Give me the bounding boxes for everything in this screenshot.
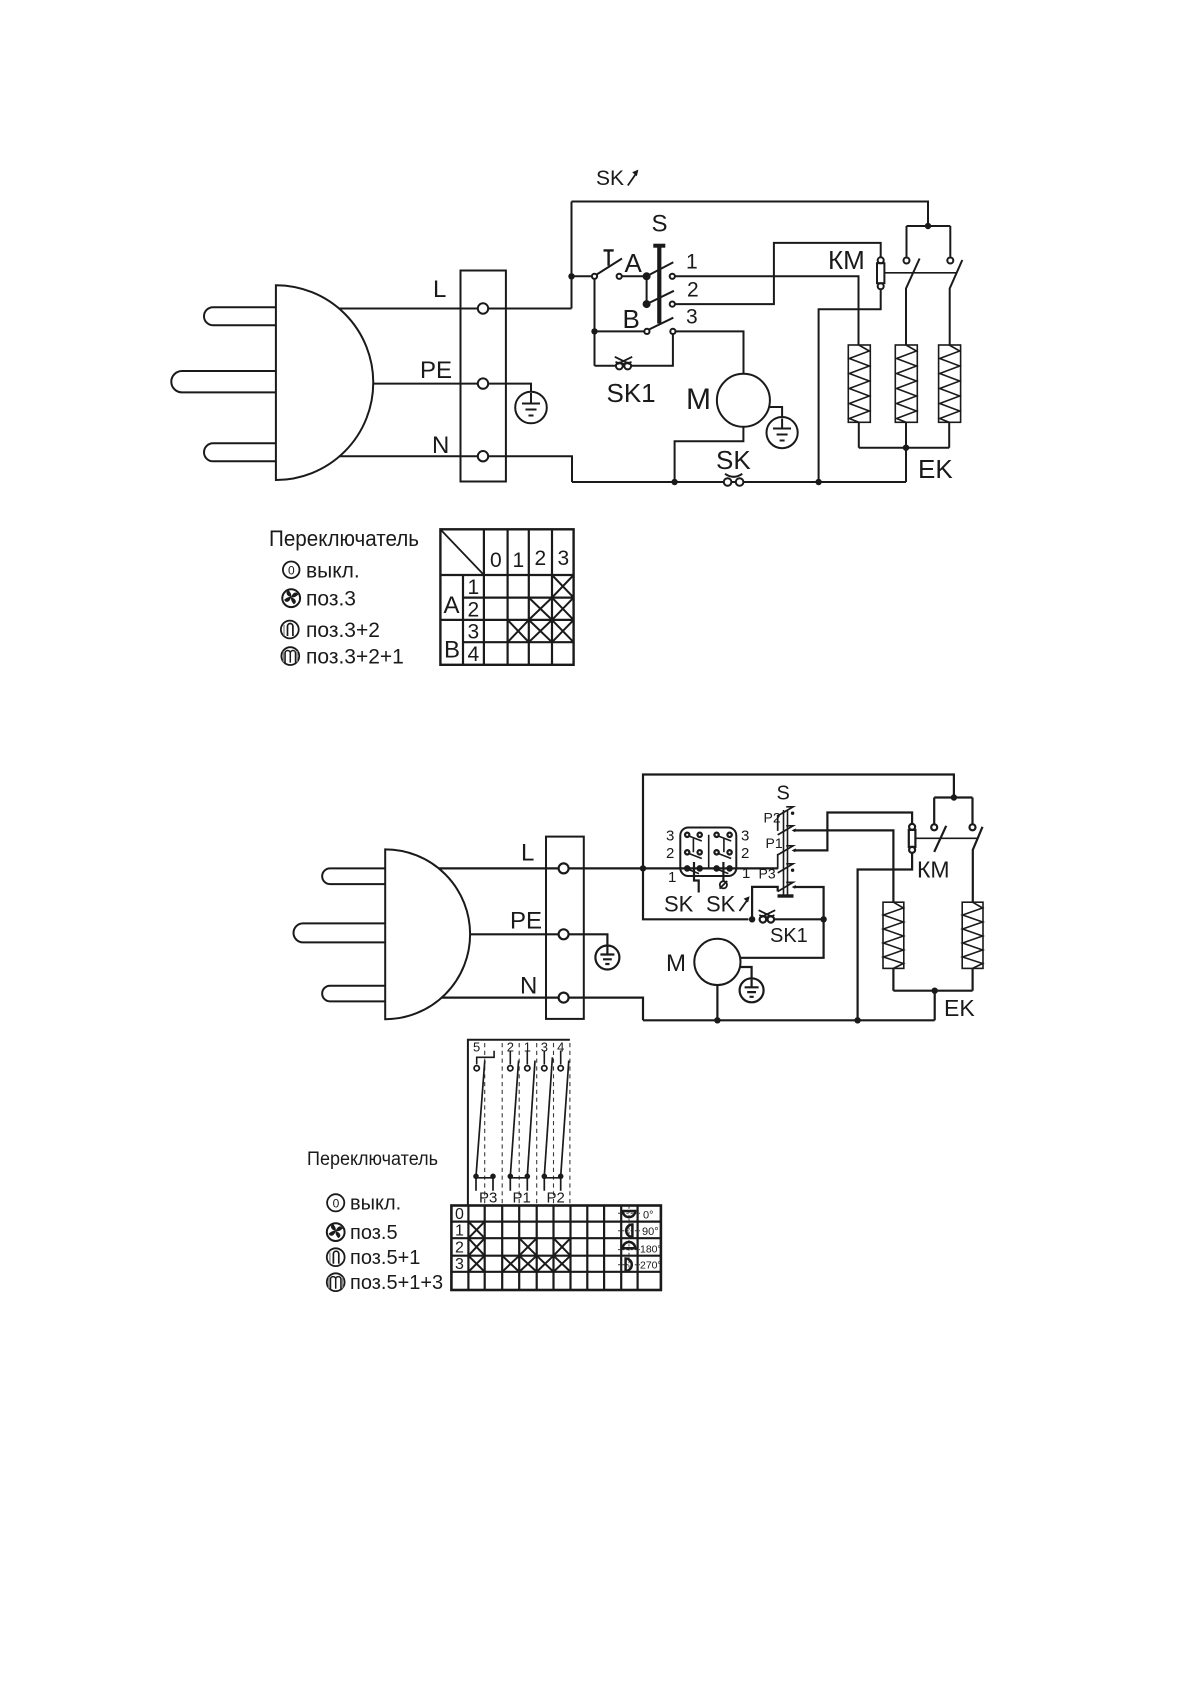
svg-text:2: 2 bbox=[666, 845, 674, 862]
table1 X r3c1 bbox=[508, 620, 529, 642]
svg-text:S: S bbox=[652, 211, 668, 238]
terminal block X2 bbox=[546, 837, 584, 1019]
selector S2 shaft bbox=[778, 810, 794, 896]
legend2 icon off bbox=[327, 1194, 344, 1211]
program staple P3 bbox=[473, 1174, 496, 1191]
KM contact K2 bbox=[947, 258, 962, 346]
svg-text:Переключатель: Переключатель bbox=[269, 526, 419, 551]
switch module SK box bbox=[680, 828, 736, 877]
wire motor ground tap bbox=[769, 407, 783, 417]
table2 X r3c3 bbox=[502, 1256, 519, 1272]
svg-text:M: M bbox=[666, 950, 686, 977]
svg-text:поз.3+2+1: поз.3+2+1 bbox=[306, 646, 404, 669]
svg-text:PE: PE bbox=[420, 357, 452, 384]
legend icon off bbox=[283, 562, 300, 579]
wire L riser bbox=[571, 202, 573, 309]
icon rot180 bbox=[618, 1242, 640, 1250]
node rail2 bbox=[932, 988, 938, 994]
table1 row labels bbox=[468, 576, 480, 666]
thermostat switch T actuator bbox=[604, 250, 614, 265]
svg-text:L: L bbox=[433, 276, 446, 303]
wire motor2 ground tap bbox=[740, 967, 752, 978]
motor M2 bbox=[694, 939, 740, 985]
svg-text:3: 3 bbox=[666, 828, 674, 845]
svg-text:поз.3: поз.3 bbox=[306, 588, 356, 611]
wire rail to N bus bbox=[905, 448, 907, 482]
S2 left rail rows3-4 bbox=[777, 854, 779, 869]
row3 contact of S bbox=[644, 318, 675, 334]
wire row2 to KM coil bbox=[675, 243, 881, 304]
table2 X r3c5 bbox=[537, 1256, 554, 1272]
label SK arrow top bbox=[596, 167, 638, 190]
legend icon fan bbox=[282, 589, 300, 607]
wire KM coil to N bus bbox=[819, 289, 881, 482]
program cam labels bbox=[473, 1040, 564, 1055]
table1 X r3c3 bbox=[552, 620, 574, 642]
program dashed guides bbox=[485, 1043, 570, 1206]
program cam5 contact bbox=[474, 1066, 479, 1071]
svg-text:B: B bbox=[623, 304, 640, 334]
wire L2 terminal to switch S2 bbox=[569, 867, 778, 869]
legend2 icon top-heat bbox=[327, 1248, 345, 1266]
program cam3 contact bbox=[542, 1066, 547, 1071]
wire row1 to heater1 bbox=[675, 276, 859, 345]
table2 X r2c4 bbox=[519, 1238, 537, 1256]
wire KM2 coil to N bbox=[858, 853, 913, 1020]
node P3 junction bbox=[820, 916, 826, 922]
S2 blade row1 bbox=[778, 807, 795, 816]
svg-text:2: 2 bbox=[535, 547, 547, 570]
table2 X r3c6 bbox=[554, 1256, 571, 1272]
program cam2 contact bbox=[508, 1066, 513, 1071]
node L2 junction bbox=[640, 865, 646, 871]
program staple P1 bbox=[508, 1174, 531, 1191]
svg-text:выкл.: выкл. bbox=[306, 560, 360, 583]
program track d3 bbox=[527, 1061, 535, 1177]
svg-text:поз.5+1: поз.5+1 bbox=[350, 1247, 420, 1269]
program track d5 bbox=[561, 1061, 569, 1177]
plug XP2 bbox=[294, 849, 471, 1019]
table1 X r2c3 bbox=[552, 598, 574, 620]
heater EK2 element1 bbox=[883, 902, 904, 968]
N2 bus bbox=[643, 1019, 935, 1021]
table2 X r2c1 bbox=[468, 1238, 484, 1256]
svg-text:КМ: КМ bbox=[828, 245, 865, 275]
table2 row labels bbox=[455, 1206, 464, 1273]
table1 diagonal bbox=[441, 530, 484, 575]
wire L2 riser bottom to SK1 bbox=[643, 868, 749, 919]
wire motor to N bus bbox=[675, 427, 744, 482]
svg-text:1: 1 bbox=[468, 576, 480, 599]
svg-text:N: N bbox=[432, 432, 449, 459]
svg-text:0: 0 bbox=[333, 1197, 340, 1211]
KM contact K1 bbox=[904, 258, 920, 346]
wire bus arms to KM contacts bbox=[907, 226, 951, 257]
svg-text:90°: 90° bbox=[642, 1226, 659, 1238]
wire top bus bbox=[572, 202, 929, 227]
wire PE terminal to ground bbox=[488, 384, 531, 392]
node motor2-N bbox=[714, 1017, 720, 1023]
svg-text:1: 1 bbox=[455, 1223, 464, 1240]
svg-text:выкл.: выкл. bbox=[350, 1193, 401, 1215]
heater EK element1 bbox=[848, 345, 870, 422]
module actuator SKa stem bbox=[720, 862, 728, 889]
svg-text:3: 3 bbox=[686, 306, 698, 329]
node KM2-N bbox=[854, 1017, 860, 1023]
svg-text:EK: EK bbox=[944, 995, 975, 1021]
SK thermal switch bbox=[724, 474, 744, 486]
program track d2 bbox=[510, 1061, 518, 1177]
svg-text:0: 0 bbox=[288, 564, 295, 578]
wire P2 to heater1 bbox=[794, 830, 894, 902]
heater EK element2 bbox=[895, 345, 917, 422]
svg-text:1: 1 bbox=[513, 549, 525, 572]
wire B common to row3 bbox=[595, 330, 645, 332]
program cam1 stem bbox=[526, 1051, 528, 1065]
mechanical link KM bbox=[885, 272, 956, 274]
svg-text:PE: PE bbox=[510, 908, 542, 935]
module contacts row2 bbox=[685, 850, 732, 858]
svg-text:SK: SK bbox=[664, 892, 694, 917]
module contacts row1 bbox=[685, 866, 732, 873]
S2 blade row5 bbox=[778, 882, 796, 891]
wire A to row1 common bbox=[622, 275, 647, 277]
selector switch S bar bbox=[653, 246, 665, 324]
wire B common riser bbox=[594, 279, 596, 366]
svg-text:SK: SK bbox=[596, 167, 624, 190]
wire row1 common to row2 common bbox=[646, 276, 648, 304]
svg-text:2: 2 bbox=[741, 845, 749, 862]
heater EK element3 bbox=[939, 345, 961, 422]
module actuator SK stem bbox=[694, 862, 699, 893]
program frame solid edges bbox=[468, 1040, 570, 1206]
svg-text:B: B bbox=[444, 637, 460, 664]
motor M bbox=[717, 374, 770, 427]
svg-text:2: 2 bbox=[455, 1240, 464, 1257]
svg-text:SK: SK bbox=[716, 445, 751, 475]
wire PE2 to ground bbox=[569, 934, 608, 946]
svg-text:N: N bbox=[520, 973, 537, 1000]
svg-text:2: 2 bbox=[687, 279, 699, 302]
ground symbol motor2 bbox=[740, 978, 764, 1002]
S2 left rail rows1-2 bbox=[777, 815, 779, 831]
svg-text:A: A bbox=[625, 248, 643, 278]
wire N2 plug to terminal bbox=[442, 996, 559, 998]
node B common bbox=[591, 328, 597, 334]
svg-text:поз.3+2: поз.3+2 bbox=[306, 619, 380, 642]
table2 verticals bbox=[468, 1206, 637, 1291]
wire L2 riser top bbox=[643, 775, 954, 869]
svg-text:A: A bbox=[444, 592, 460, 619]
svg-text:3: 3 bbox=[558, 547, 570, 570]
svg-text:1: 1 bbox=[686, 251, 698, 274]
S2 blade row2 bbox=[778, 826, 796, 835]
svg-text:SK: SK bbox=[706, 892, 736, 917]
icon rot90 bbox=[618, 1225, 640, 1237]
SK1-2 thermal cutout bbox=[759, 910, 824, 922]
wire junction to thermostat bbox=[572, 275, 593, 277]
program staple P2 bbox=[542, 1174, 564, 1191]
svg-text:S: S bbox=[777, 783, 790, 805]
program cam4 contact bbox=[558, 1066, 563, 1071]
svg-text:270°: 270° bbox=[640, 1260, 662, 1272]
wire N step bbox=[488, 456, 572, 482]
svg-text:P3: P3 bbox=[759, 866, 776, 882]
terminal block X1 bbox=[461, 271, 506, 482]
svg-text:поз.5+1+3: поз.5+1+3 bbox=[350, 1272, 443, 1294]
svg-text:L: L bbox=[521, 840, 534, 867]
table2 X r3c1 bbox=[468, 1256, 484, 1272]
svg-text:3: 3 bbox=[741, 828, 749, 845]
contactor coil KM2 bbox=[909, 824, 916, 853]
svg-text:2: 2 bbox=[468, 599, 480, 622]
svg-text:P2: P2 bbox=[547, 1190, 565, 1207]
svg-text:P3: P3 bbox=[479, 1190, 497, 1207]
program cam3 stem bbox=[543, 1051, 545, 1065]
program cam5 bracket bbox=[477, 1051, 494, 1065]
svg-text:P1: P1 bbox=[766, 835, 783, 851]
table1 horizontals bbox=[440, 575, 573, 642]
node bus2 dot bbox=[951, 794, 957, 800]
ground symbol PE bbox=[515, 392, 547, 424]
row1 contact of S bbox=[644, 262, 675, 279]
svg-text:0: 0 bbox=[490, 549, 502, 572]
contactor coil KM bbox=[877, 257, 884, 289]
node L junction bbox=[568, 273, 574, 279]
node bus dot bbox=[925, 223, 931, 229]
wire row3 to motor bbox=[676, 331, 744, 373]
table1 verticals bbox=[463, 529, 552, 665]
wire L2 plug to terminal bbox=[439, 867, 559, 869]
svg-text:SK1: SK1 bbox=[607, 378, 656, 408]
wire motor2 to N bbox=[716, 985, 718, 1020]
table2 X r2c6 bbox=[554, 1238, 571, 1256]
program cam4 stem bbox=[560, 1051, 562, 1065]
table1 X r2c2 bbox=[529, 598, 552, 620]
svg-text:3: 3 bbox=[468, 621, 480, 644]
KM2 contact K1 bbox=[931, 824, 946, 852]
wire L plug to terminal bbox=[339, 308, 478, 310]
svg-text:1: 1 bbox=[668, 869, 676, 886]
svg-text:4: 4 bbox=[468, 643, 480, 666]
svg-text:M: M bbox=[686, 383, 711, 416]
table1 X r3c2 bbox=[529, 620, 552, 642]
plug XP1 bbox=[171, 285, 373, 480]
ground symbol motor bbox=[767, 417, 798, 448]
svg-text:поз.5: поз.5 bbox=[350, 1222, 398, 1244]
svg-text:3: 3 bbox=[455, 1256, 464, 1273]
module link bars bbox=[693, 835, 724, 869]
svg-text:5: 5 bbox=[473, 1040, 480, 1055]
legend icon top-heat bbox=[281, 621, 299, 639]
wire N2 step bbox=[569, 998, 643, 1021]
wire L terminal to riser bbox=[488, 308, 571, 310]
module contacts row3 bbox=[685, 833, 732, 841]
svg-text:КМ: КМ bbox=[917, 857, 950, 883]
icon rot270 bbox=[618, 1259, 640, 1271]
table2 X r3c4 bbox=[519, 1256, 537, 1272]
wire P1 to KM2 coil bbox=[794, 813, 913, 851]
thermostat contact A-switch bbox=[592, 259, 622, 279]
wire P3 to motor bbox=[740, 887, 823, 958]
svg-text:P2: P2 bbox=[764, 810, 781, 826]
table1 X r1c3 bbox=[552, 575, 574, 598]
table2 horizontals bbox=[451, 1222, 661, 1272]
heater bottom rail bbox=[859, 422, 949, 447]
node rail bbox=[903, 445, 909, 451]
legend2 icon grill bbox=[327, 1273, 345, 1291]
svg-text:0: 0 bbox=[455, 1206, 464, 1223]
legend icon grill bbox=[281, 647, 299, 665]
heater2 bottom rail bbox=[893, 968, 972, 990]
legend2 icon fan bbox=[327, 1223, 345, 1241]
node KM-N bbox=[815, 479, 821, 485]
mechanical link KM2 bbox=[916, 837, 979, 839]
svg-text:Переключатель: Переключатель bbox=[307, 1149, 438, 1170]
wire PE2 plug to terminal bbox=[470, 933, 558, 935]
program track d4 bbox=[544, 1057, 552, 1176]
wire rail2 to N2 bbox=[934, 991, 936, 1021]
S2 blade row4 bbox=[778, 864, 795, 873]
label SKarrow module bbox=[706, 892, 750, 917]
svg-text:P1: P1 bbox=[513, 1190, 531, 1207]
svg-text:SK1: SK1 bbox=[770, 925, 808, 947]
icon rot0 bbox=[618, 1207, 640, 1272]
node SK1-2 left bbox=[749, 916, 755, 922]
program track d1 bbox=[476, 1061, 485, 1177]
wire N plug to terminal bbox=[340, 455, 478, 457]
KM2 contact K2 bbox=[970, 824, 983, 902]
wire PE plug to terminal bbox=[373, 383, 478, 385]
svg-text:EK: EK bbox=[918, 454, 953, 484]
table1 outer bbox=[440, 529, 573, 665]
svg-text:1: 1 bbox=[742, 865, 750, 882]
svg-text:180°: 180° bbox=[640, 1244, 662, 1256]
SK1 thermal cutout bbox=[595, 334, 673, 370]
program cam2 stem bbox=[509, 1051, 511, 1065]
table2 X r1c1 bbox=[468, 1222, 484, 1239]
table2 outer bbox=[451, 1206, 661, 1291]
wire SK1-2 bypass riser bbox=[752, 887, 778, 919]
table1 headers bbox=[490, 547, 569, 572]
ground symbol PE2 bbox=[595, 946, 619, 970]
program cam1 contact bbox=[525, 1066, 530, 1071]
row2 contact of S bbox=[644, 291, 675, 307]
heater EK2 element2 bbox=[962, 902, 983, 968]
N bus wire bbox=[572, 481, 906, 483]
node motor-N bbox=[671, 479, 677, 485]
wire bus2 arms bbox=[934, 798, 972, 825]
S2 blade row3 bbox=[778, 846, 796, 855]
svg-text:0°: 0° bbox=[643, 1210, 654, 1222]
